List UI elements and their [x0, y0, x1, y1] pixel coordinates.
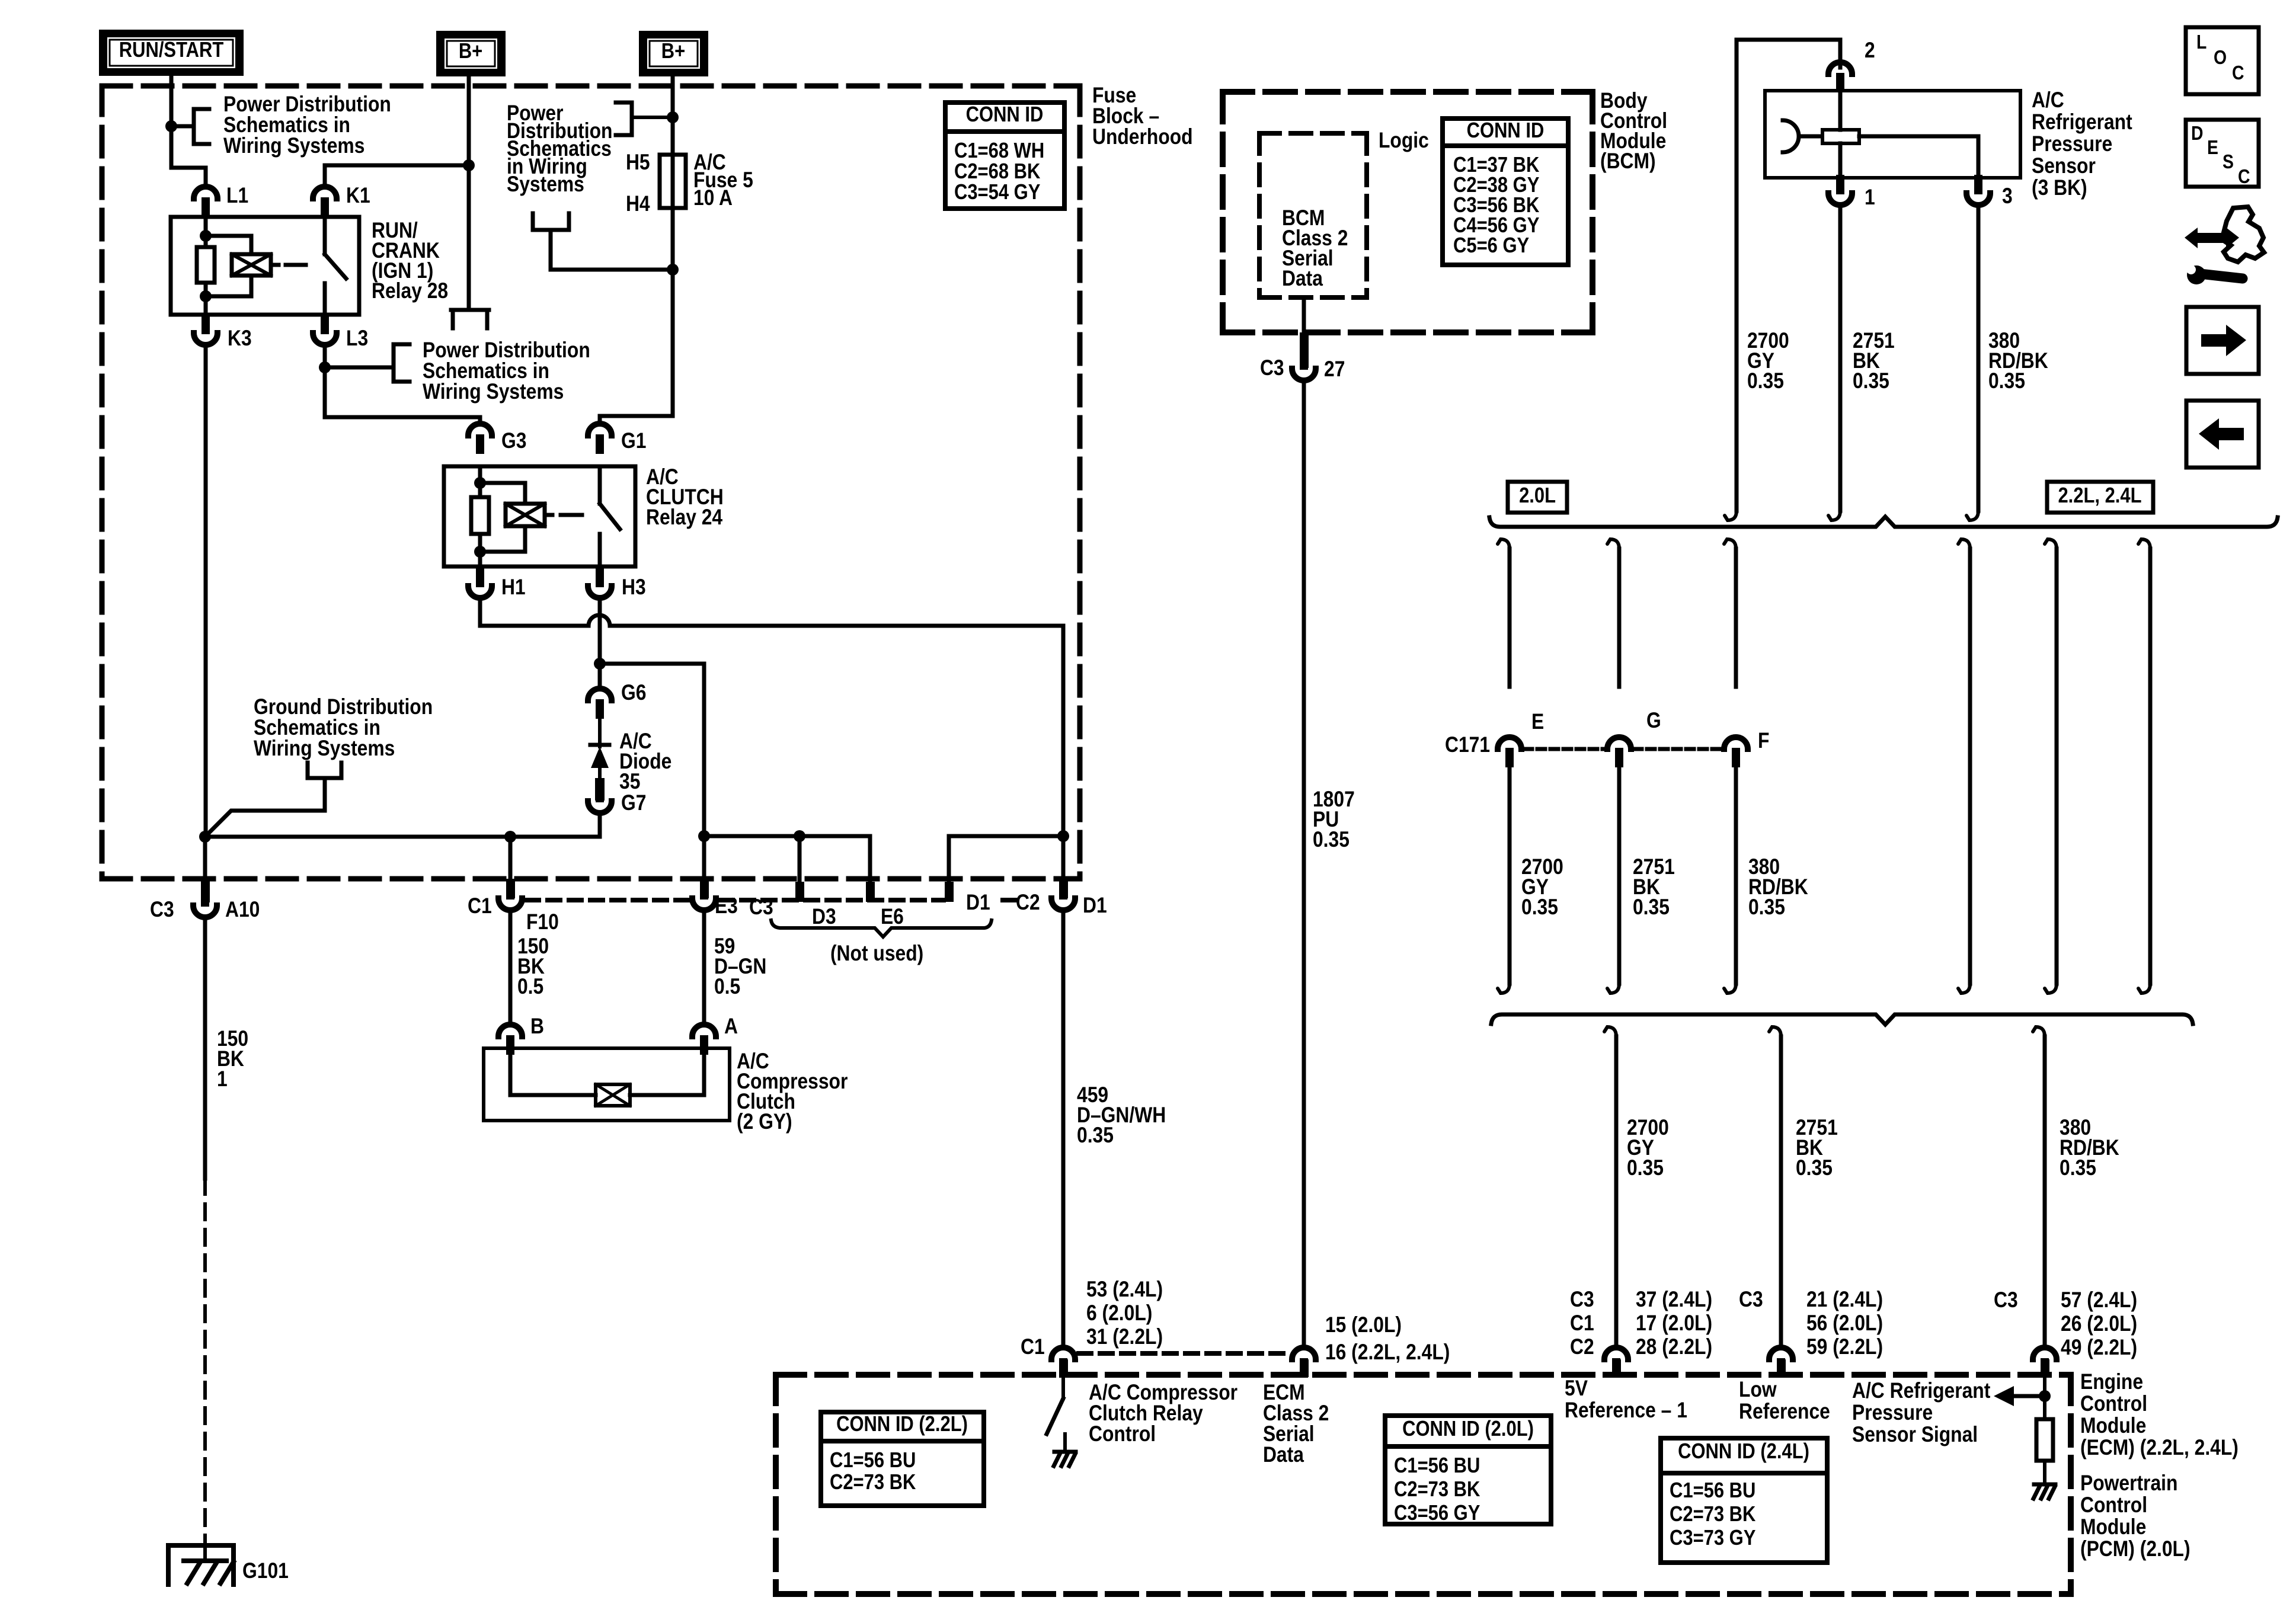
svg-text:(BCM): (BCM): [1600, 149, 1656, 174]
wire 1807 PU to ECM: [1302, 382, 1306, 1345]
dashed connector line ECM C1 to class2: [1079, 1351, 1288, 1356]
wire B+ (left) down: [467, 76, 471, 310]
connector C171 F: [1724, 737, 1748, 767]
svg-text:CONN ID: CONN ID: [966, 103, 1044, 127]
svg-text:B+: B+: [661, 40, 685, 63]
wire RUN/START down: [170, 76, 174, 126]
icon box DESC: [2186, 120, 2259, 188]
svg-text:0.35: 0.35: [1796, 1156, 1833, 1180]
wire relay28 coil actuator stub: [271, 263, 279, 267]
wire G wire 2751 (2.0L) upper part: [1607, 539, 1619, 687]
power feed box RUN/START: [99, 30, 244, 76]
svg-text:C5=6 GY: C5=6 GY: [1453, 234, 1529, 258]
label pins 15/16: [1325, 1313, 1450, 1365]
svg-text:C2=73 BK: C2=73 BK: [830, 1471, 916, 1494]
icon wrench/double-arrow (schematic reference): [2182, 207, 2264, 284]
svg-text:CONN ID: CONN ID: [1467, 119, 1544, 143]
svg-text:G6: G6: [621, 681, 646, 705]
svg-text:H5: H5: [626, 151, 650, 175]
stub ECM class 2: [1300, 1359, 1309, 1377]
A/C compressor clutch box: [484, 1048, 730, 1121]
svg-text:27: 27: [1324, 357, 1345, 382]
connector H3: [588, 568, 612, 598]
svg-text:Data: Data: [1282, 267, 1323, 291]
svg-text:G101: G101: [242, 1559, 289, 1583]
node junction A10: [199, 831, 211, 843]
ground G101 symbol: [168, 1541, 234, 1585]
svg-text:C1=56 BU: C1=56 BU: [1670, 1479, 1755, 1503]
svg-text:Relay 28: Relay 28: [372, 279, 448, 303]
label A/C Diode 35: [619, 729, 671, 794]
svg-text:2: 2: [1865, 39, 1875, 63]
label 5V Reference - 1: [1565, 1377, 1687, 1423]
svg-text:Systems: Systems: [507, 172, 584, 197]
svg-text:A: A: [724, 1014, 738, 1039]
connector A: [692, 1025, 716, 1055]
label 459 D-GN/WH 0.35: [1077, 1083, 1166, 1148]
node junction H3/E3: [594, 658, 606, 670]
label Fuse Block - Underhood: [1092, 84, 1193, 149]
label A/C Fuse 5 10 A: [693, 151, 753, 210]
label 2751 BK 0.35 (lower): [1796, 1116, 1838, 1180]
reference receptacle below text (to fuse bottom): [533, 213, 569, 230]
label 1807 PU 0.35: [1313, 788, 1355, 852]
wire 59 D-GN 0.5: [702, 912, 706, 1023]
wire ECM signal internal: [2043, 1377, 2046, 1483]
stub E3: [700, 879, 709, 898]
svg-text:C2=73 BK: C2=73 BK: [1394, 1478, 1480, 1502]
svg-text:Relay 24: Relay 24: [646, 505, 722, 530]
label BCM Class 2 Serial Data: [1282, 206, 1348, 291]
svg-text:D: D: [2191, 122, 2203, 145]
svg-text:Logic: Logic: [1379, 129, 1429, 153]
svg-text:B: B: [530, 1014, 544, 1039]
dashed actuator link relay28: [286, 263, 306, 267]
svg-text:G3: G3: [501, 429, 526, 453]
connector B: [498, 1025, 522, 1055]
svg-text:(Not used): (Not used): [830, 942, 923, 966]
reference bracket (power distribution, right of text): [616, 103, 673, 135]
svg-text:1: 1: [217, 1067, 228, 1092]
chassis ground (relay control): [1054, 1452, 1076, 1466]
node junction fuse top reference: [667, 111, 679, 123]
fuse F5 A/C Fuse 5 10A: [660, 155, 686, 270]
svg-text:0.5: 0.5: [517, 975, 543, 999]
relay U24 A/C CLUTCH Relay 24 box: [444, 466, 635, 566]
power feed box B+ (left): [436, 31, 506, 76]
stub sensor pin 3: [1974, 178, 1982, 193]
svg-text:K3: K3: [228, 327, 252, 351]
BCM dashed box: [1223, 92, 1593, 332]
svg-text:E3: E3: [715, 894, 738, 918]
conn id table (2.0L): [1385, 1416, 1551, 1525]
coil relay24 (box with X): [506, 504, 545, 526]
power feed box B+ (right): [639, 31, 708, 76]
wire 2751 (2.2/2.4L): [2045, 539, 2057, 993]
wire clutch coil to A: [630, 1055, 704, 1095]
wire A10 drop: [203, 837, 207, 883]
wire ECM signal arrow: [2014, 1394, 2045, 1398]
dashed link G-F: [1634, 747, 1721, 751]
svg-text:Reference – 1: Reference – 1: [1565, 1398, 1687, 1423]
connector G6: [588, 689, 612, 719]
wire port to transducer: [1799, 135, 1822, 139]
connector C171 E: [1498, 737, 1521, 767]
switch relay24 blade: [600, 504, 620, 529]
svg-text:0.5: 0.5: [714, 975, 740, 999]
wire 2751 BK to ECM: [1769, 1027, 1781, 1345]
wire fuse to G1: [600, 270, 673, 422]
svg-text:2.0L: 2.0L: [1519, 484, 1556, 508]
node junction B+/K1: [463, 159, 475, 171]
node junction E3/not-used: [698, 830, 710, 842]
wire 459 D-GN/WH to ECM: [1061, 912, 1066, 1345]
label box 2.2L, 2.4L: [2047, 482, 2153, 513]
svg-text:Wiring Systems: Wiring Systems: [223, 134, 364, 158]
wire not-used bus from E3: [704, 836, 870, 882]
wire A10 to ground dashed part: [203, 1179, 207, 1541]
connector C3/27 (BCM): [1292, 350, 1316, 380]
svg-text:CONN ID (2.2L): CONN ID (2.2L): [836, 1413, 968, 1436]
svg-text:C3: C3: [1260, 356, 1284, 380]
svg-text:(2 GY): (2 GY): [737, 1110, 792, 1134]
svg-text:G: G: [1646, 709, 1661, 733]
svg-text:Data: Data: [1263, 1443, 1304, 1467]
connector ECM 5V ref: [1604, 1347, 1628, 1378]
svg-text:Low: Low: [1739, 1378, 1777, 1402]
node junction D3: [794, 830, 805, 842]
label 150 BK 0.5: [517, 934, 549, 999]
wire 2700 (2.2/2.4L): [1958, 539, 1970, 993]
reference receptacle symbol (to power distribution): [451, 310, 489, 328]
svg-text:(PCM) (2.0L): (PCM) (2.0L): [2080, 1537, 2191, 1561]
label A/C Compressor Clutch (2 GY): [737, 1049, 848, 1134]
relay U28 RUN/CRANK (IGN 1) Relay 28 box: [171, 217, 359, 315]
wire relay28 resistor bottom: [204, 283, 208, 315]
svg-text:E: E: [1531, 710, 1544, 734]
svg-text:C3: C3: [1739, 1288, 1763, 1312]
resistor ECM internal pulldown: [2036, 1419, 2053, 1461]
svg-text:Pressure: Pressure: [1852, 1401, 1933, 1425]
svg-text:D3: D3: [812, 905, 836, 929]
svg-text:D1: D1: [966, 891, 990, 915]
label pins 37/17/28: [1636, 1288, 1712, 1359]
connector L3: [313, 315, 337, 345]
wire 2700 GY to ECM: [1604, 1027, 1616, 1345]
BCM CONN ID table: [1443, 119, 1568, 265]
diode D35 A/C Diode 35: [590, 717, 609, 801]
svg-text:(3 BK): (3 BK): [2032, 176, 2087, 200]
transducer element: [1822, 130, 1859, 143]
wire C171 G lower part: [1607, 769, 1619, 993]
wire E wire 2700 (2.0L) upper part: [1498, 539, 1510, 687]
svg-text:C2=68 BK: C2=68 BK: [954, 160, 1040, 184]
svg-text:37 (2.4L): 37 (2.4L): [1636, 1288, 1712, 1312]
svg-text:Powertrain: Powertrain: [2080, 1471, 2177, 1496]
label Power Distribution Schematics in Wiring Systems (top-left): [223, 92, 391, 158]
wire ground reference to bus: [205, 778, 325, 837]
connector K1: [313, 187, 337, 217]
wire L1 pin into relay: [204, 217, 208, 247]
svg-text:C1=68 WH: C1=68 WH: [954, 139, 1044, 163]
svg-text:0.35: 0.35: [1853, 369, 1889, 393]
svg-text:H4: H4: [626, 192, 650, 216]
stub terminal E6 (not used): [866, 882, 875, 902]
connector G3: [468, 424, 492, 454]
wire relay28 coil top branch: [206, 236, 251, 254]
svg-text:57 (2.4L): 57 (2.4L): [2061, 1288, 2137, 1313]
label Engine Control Module (ECM) (2.2L, 2.4L): [2080, 1370, 2239, 1460]
svg-text:C3: C3: [1994, 1288, 2018, 1313]
svg-text:C1: C1: [468, 894, 492, 918]
label Ground Distribution Schematics in Wiring Systems: [254, 695, 433, 761]
conn id table (2.2L): [821, 1412, 984, 1506]
switch relay28 lower contact: [323, 283, 327, 315]
wire D3 drop: [798, 836, 802, 882]
svg-text:C3=73 GY: C3=73 GY: [1670, 1526, 1755, 1550]
wire BCM logic to C3 connector: [1302, 297, 1306, 334]
label 2700 GY 0.35 (middle): [1521, 855, 1563, 920]
dashed connector line C1 to E3: [526, 898, 688, 902]
switch relay28 blade: [325, 254, 346, 279]
svg-text:H1: H1: [501, 575, 526, 600]
svg-text:CONN ID (2.0L): CONN ID (2.0L): [1402, 1417, 1534, 1441]
stub BCM C3/27: [1300, 332, 1309, 368]
wire C1 drop: [509, 837, 513, 883]
svg-text:C1: C1: [1570, 1311, 1594, 1336]
label pins 21/56/59: [1806, 1288, 1883, 1359]
switch relay24 upper contact: [598, 466, 602, 504]
svg-text:C3: C3: [150, 898, 174, 922]
label A/C CLUTCH Relay 24: [646, 465, 724, 530]
connector sensor pin 2: [1828, 62, 1852, 92]
switch ECM relay control blade: [1047, 1377, 1063, 1434]
wire A10 to ground solid part: [203, 919, 207, 1179]
stub ECM C1: [1059, 1359, 1068, 1377]
icon box arrow left: [2186, 401, 2259, 468]
connector L1: [194, 187, 218, 217]
reference bracket (power distribution, near L3): [394, 344, 410, 382]
svg-text:G7: G7: [621, 791, 646, 815]
connector sensor pin 3: [1966, 175, 1990, 205]
wire F wire 380 (2.0L) upper part: [1724, 539, 1736, 687]
stub terminal D1 (not used): [945, 882, 954, 902]
wire B+ (right) down to fuse: [671, 76, 675, 155]
label Body Control Module (BCM): [1600, 89, 1667, 174]
svg-text:Reference: Reference: [1739, 1400, 1830, 1424]
svg-text:B+: B+: [459, 40, 482, 63]
switch relay28 upper contact: [323, 217, 327, 254]
svg-text:56 (2.0L): 56 (2.0L): [1806, 1311, 1883, 1336]
svg-text:L3: L3: [346, 327, 368, 351]
label 380 RD/BK 0.35 (middle): [1748, 855, 1808, 920]
stub ECM pressure signal: [2041, 1359, 2049, 1377]
stub sensor pin 1: [1836, 178, 1844, 193]
node junction L3: [319, 361, 331, 373]
svg-text:C3=54 GY: C3=54 GY: [954, 181, 1040, 204]
node ECM signal junction: [2039, 1390, 2051, 1402]
wire junction to L1: [171, 126, 206, 185]
svg-text:A/C: A/C: [2032, 88, 2064, 113]
icon box arrow right: [2186, 307, 2259, 374]
connector C1/F10: [498, 880, 522, 910]
wire 380 (2.2/2.4L): [2138, 539, 2150, 993]
arrowhead (points to signal label): [1994, 1386, 2014, 1406]
dashed connector line E3 to C2/D1: [720, 898, 944, 902]
node relay24 coil top: [474, 477, 486, 489]
svg-text:A10: A10: [225, 898, 260, 922]
stub C1/F10: [506, 879, 515, 898]
svg-text:C: C: [2238, 165, 2250, 188]
label pins C3/C1/C2: [1570, 1288, 1594, 1359]
svg-text:15 (2.0L): 15 (2.0L): [1325, 1313, 1402, 1337]
wire transducer to pin3: [1859, 136, 1978, 178]
svg-text:C2: C2: [1016, 891, 1040, 915]
wire H3 junction to E3 drop: [600, 664, 704, 836]
wire receptacle to fuse bottom junction: [551, 230, 673, 270]
BCM logic dashed box: [1259, 133, 1367, 297]
svg-text:C: C: [2232, 62, 2244, 84]
stub ECM 5V ref: [1612, 1359, 1621, 1377]
label 59 D-GN 0.5: [714, 934, 766, 999]
label Power Distribution Schematics in Wiring Systems (5-line): [507, 101, 612, 197]
fuse block - underhood dashed box: [102, 86, 1080, 879]
label 380 RD/BK 0.35 (upper): [1988, 329, 2048, 393]
svg-text:Sensor Signal: Sensor Signal: [1852, 1423, 1978, 1447]
dashed link E-G: [1524, 747, 1604, 751]
wire junction to K1: [325, 165, 469, 185]
svg-text:3: 3: [2002, 184, 2013, 209]
connector ECM low ref: [1769, 1347, 1793, 1378]
conn id table (fuse block): [945, 103, 1064, 209]
svg-text:26 (2.0L): 26 (2.0L): [2061, 1312, 2137, 1336]
connector H1: [468, 568, 492, 598]
label A/C Refrigerant Pressure Sensor (3 BK): [2032, 88, 2132, 200]
svg-text:C3=56 GY: C3=56 GY: [1394, 1502, 1480, 1525]
svg-text:0.35: 0.35: [2060, 1156, 2096, 1180]
svg-text:Control: Control: [1089, 1422, 1156, 1446]
label pins 57/26/49: [2061, 1288, 2137, 1360]
svg-text:Control: Control: [2080, 1493, 2147, 1518]
label ECM Class 2 Serial Data: [1263, 1381, 1329, 1467]
label 380 RD/BK 0.35 (lower): [2060, 1116, 2119, 1180]
stub C2/D1: [1059, 879, 1068, 898]
svg-text:35: 35: [619, 770, 640, 794]
stub ECM low ref: [1777, 1359, 1786, 1377]
icon box LOC: [2186, 27, 2259, 94]
svg-text:D1: D1: [1083, 894, 1107, 918]
brace engine variants (top): [1489, 517, 2278, 527]
svg-text:F10: F10: [526, 910, 559, 934]
dash between D1 and C2 labels: [1003, 898, 1015, 902]
wire relay24 coil actuator stub: [545, 513, 552, 517]
svg-text:1: 1: [1865, 185, 1875, 210]
wire E3 connector drop: [702, 836, 706, 883]
connector C171 G: [1607, 737, 1631, 767]
svg-text:2.2L, 2.4L: 2.2L, 2.4L: [2058, 484, 2141, 508]
connector sensor pin 1: [1828, 175, 1852, 205]
connector ECM class 2: [1292, 1347, 1316, 1378]
svg-text:C1=56 BU: C1=56 BU: [1394, 1454, 1480, 1478]
svg-text:C1=56 BU: C1=56 BU: [830, 1449, 916, 1473]
wire C171 E lower part: [1498, 769, 1510, 993]
wire relay24 coil top branch: [480, 483, 525, 504]
wire ECM relay control ground stub: [1063, 1434, 1067, 1452]
svg-text:F: F: [1758, 729, 1769, 753]
sensor pressure port arc: [1783, 120, 1799, 152]
label Powertrain Control Module (PCM) (2.0L): [2080, 1471, 2191, 1561]
label pins 53/6/31: [1086, 1278, 1163, 1349]
svg-text:RUN/START: RUN/START: [119, 39, 224, 62]
svg-text:O: O: [2214, 46, 2227, 69]
node relay28 coil top: [200, 230, 212, 242]
svg-text:Control: Control: [2080, 1392, 2147, 1416]
label Low Reference: [1739, 1378, 1830, 1424]
svg-text:49 (2.2L): 49 (2.2L): [2061, 1336, 2137, 1360]
wire junction down to C2/D1 connector: [1061, 836, 1066, 883]
svg-text:Module: Module: [2080, 1515, 2146, 1539]
chassis ground (ECM signal): [2033, 1484, 2055, 1499]
svg-text:CONN ID (2.4L): CONN ID (2.4L): [1678, 1440, 1809, 1464]
wire 2751 BK upper: [1828, 207, 1840, 520]
wire D1 not-used segment: [949, 836, 1063, 882]
switch relay24 lower contact: [598, 534, 602, 566]
svg-text:59 (2.2L): 59 (2.2L): [1806, 1335, 1883, 1359]
wire 2700 GY upper: [1725, 40, 1737, 520]
wire H1 down and right (hop over H3 wire): [480, 600, 1063, 836]
wire relay28 coil bottom branch: [206, 276, 251, 296]
wire L3 down: [323, 347, 327, 417]
svg-text:28 (2.2L): 28 (2.2L): [1636, 1335, 1712, 1359]
wire C171 F lower part: [1724, 769, 1736, 993]
connector G1: [588, 424, 612, 454]
label RUN/CRANK (IGN 1) Relay 28: [372, 219, 448, 303]
label Power Distribution Schematics in Wiring Systems (mid-left): [423, 338, 590, 404]
label 2751 BK 0.35 (upper): [1853, 329, 1895, 393]
svg-text:C171: C171: [1445, 733, 1490, 757]
svg-text:Module: Module: [2080, 1414, 2146, 1438]
wire B into clutch coil: [510, 1055, 596, 1095]
svg-text:Engine: Engine: [2080, 1370, 2143, 1394]
svg-text:C2: C2: [1570, 1335, 1594, 1359]
conn id table (2.4L): [1661, 1438, 1827, 1563]
svg-text:0.35: 0.35: [1747, 369, 1784, 393]
wire L3 junction to bracket: [325, 366, 394, 370]
svg-text:0.35: 0.35: [1748, 895, 1785, 920]
svg-text:21 (2.4L): 21 (2.4L): [1806, 1288, 1883, 1312]
svg-text:C2=73 BK: C2=73 BK: [1670, 1503, 1755, 1526]
svg-text:0.35: 0.35: [1313, 828, 1350, 852]
svg-text:Underhood: Underhood: [1092, 125, 1193, 149]
brace (not used group): [771, 920, 992, 937]
svg-text:(ECM) (2.2L, 2.4L): (ECM) (2.2L, 2.4L): [2080, 1436, 2239, 1460]
svg-text:H3: H3: [622, 575, 646, 600]
svg-text:53 (2.4L): 53 (2.4L): [1086, 1278, 1163, 1302]
svg-text:L1: L1: [226, 184, 248, 208]
label 2700 GY 0.35 (lower): [1627, 1116, 1669, 1180]
svg-text:Wiring Systems: Wiring Systems: [254, 737, 395, 761]
reference receptacle (ground distribution): [308, 763, 341, 778]
svg-text:Wiring Systems: Wiring Systems: [423, 380, 564, 404]
connector G7: [588, 783, 612, 813]
wire pin2 into transducer: [1838, 91, 1843, 130]
connector K3: [194, 315, 218, 345]
coil compressor clutch (box with X): [596, 1084, 630, 1106]
wire G3 pin into relay24: [478, 466, 482, 497]
wire G7 to ground bus: [205, 815, 600, 837]
connector A10: [193, 887, 217, 917]
label 150 BK 1: [217, 1027, 248, 1092]
